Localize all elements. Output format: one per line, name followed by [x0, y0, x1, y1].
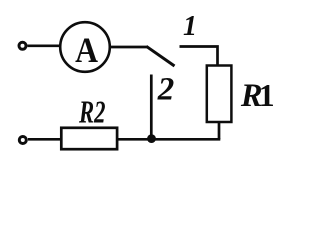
svg-text:2: 2	[157, 71, 175, 107]
switch blade SA1	[146, 46, 174, 66]
wire R1 bottom lead	[218, 122, 221, 139]
node junction dot	[147, 134, 156, 143]
ammeter U1 circle	[60, 22, 110, 72]
svg-text:1: 1	[183, 11, 197, 42]
wire switch contact 2 vertical	[150, 75, 153, 140]
resistor R2 body	[61, 128, 117, 149]
svg-text:A: A	[75, 31, 98, 70]
terminal bottom-left	[19, 137, 26, 144]
resistor R1 body	[207, 66, 232, 123]
svg-text:R2: R2	[78, 93, 105, 129]
switch contact 1 wire to R1 top	[180, 47, 218, 67]
svg-text:1: 1	[259, 77, 275, 113]
wire ammeter to switch pole	[111, 46, 148, 49]
terminal top-left	[19, 42, 26, 49]
wire bottom from R1 to R2	[118, 138, 220, 141]
ammeter label A	[75, 31, 98, 70]
wire R2 to terminal bottom-left	[28, 138, 60, 141]
wire terminal to ammeter	[28, 44, 61, 47]
